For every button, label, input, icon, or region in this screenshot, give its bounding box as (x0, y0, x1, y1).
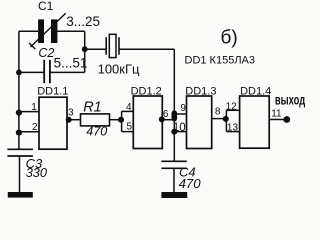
svg-text:DD1.4: DD1.4 (240, 86, 271, 98)
wire DD1.2 input bus (121, 111, 123, 131)
wire pin 11 output stub (270, 119, 287, 121)
svg-text:100кГц: 100кГц (98, 61, 140, 76)
wire pin 3 stub to R1 (67, 119, 81, 121)
wire pin 4 stub (122, 110, 134, 112)
svg-text:8: 8 (215, 107, 221, 118)
node junction pin6 (159, 116, 165, 122)
node junction feedback pin10 (171, 129, 177, 135)
wire pin 12 stub (226, 109, 239, 111)
capacitor C3 plates (7, 149, 33, 156)
svg-text:R1: R1 (83, 99, 102, 115)
svg-text:2: 2 (32, 122, 38, 133)
svg-text:13: 13 (227, 123, 239, 134)
capacitor C1 plates (38, 19, 57, 43)
svg-text:DD1 К155ЛА3: DD1 К155ЛА3 (185, 54, 256, 66)
svg-text:DD1.3: DD1.3 (185, 86, 216, 98)
wire pin 6 stub (162, 119, 174, 121)
svg-text:10: 10 (173, 122, 186, 134)
node junction pin2 (16, 130, 22, 136)
wire C2 right horizontal (50, 71, 85, 73)
wire C2 left horizontal (19, 71, 44, 73)
svg-text:б): б) (221, 28, 238, 49)
svg-text:470: 470 (179, 176, 202, 191)
capacitor C1 trimmer diagonal (29, 13, 66, 49)
logic gate DD1.3 (187, 96, 212, 149)
logic gate DD1.4 (240, 96, 270, 148)
svg-text:3: 3 (68, 108, 74, 119)
node junction C2 left line (16, 70, 22, 76)
wire pin 8 stub to DD1.4 bus (212, 118, 227, 120)
svg-text:C2: C2 (38, 46, 54, 60)
ground C3 (8, 192, 33, 198)
svg-text:C1: C1 (38, 0, 54, 13)
capacitor C2 plates (44, 60, 50, 83)
svg-text:DD1.2: DD1.2 (131, 86, 162, 98)
svg-text:выход: выход (275, 93, 305, 108)
wire pin 9 stub (174, 113, 186, 115)
wire right vertical node (C1 to C2 right) (84, 31, 86, 72)
svg-text:12: 12 (226, 101, 238, 112)
node junction R1 bus (118, 117, 124, 123)
ground C4 (161, 192, 187, 198)
wire feedback vertical (crystal to DD1.2 out / C4) (173, 49, 175, 161)
svg-text:470: 470 (86, 125, 107, 139)
svg-text:5...51: 5...51 (54, 55, 88, 70)
wire pin 2 stub (19, 131, 39, 133)
wire pin 13 stub (226, 131, 239, 133)
svg-text:9: 9 (180, 103, 186, 114)
resistor R1 (81, 114, 110, 126)
svg-text:4: 4 (126, 102, 132, 113)
svg-text:3...25: 3...25 (66, 14, 100, 29)
logic gate DD1.2 (133, 96, 162, 149)
wire left vertical node (C1/C2 left to DD1.1 inputs and C3) (18, 31, 20, 149)
svg-text:1: 1 (31, 102, 37, 113)
svg-text:330: 330 (26, 165, 48, 180)
svg-text:6: 6 (163, 109, 169, 120)
wire C1 right horizontal (57, 30, 84, 32)
wire crystal left (85, 48, 107, 50)
wire C3 to ground (19, 156, 21, 192)
node junction crystal tap (82, 46, 88, 52)
node output terminal (283, 116, 290, 123)
wire R1 to DD1.2 input bus (110, 119, 122, 121)
svg-text:DD1.1: DD1.1 (37, 86, 68, 98)
crystal ZQ1 100kHz (106, 34, 119, 57)
wire pin 10 stub (174, 131, 186, 133)
node junction feedback pin9+pin6 blob (172, 113, 178, 118)
wire C1 left horizontal (19, 30, 38, 32)
wire pin 5 stub (122, 131, 134, 133)
node junction pin3 (66, 117, 72, 123)
node junction pin1 (16, 110, 22, 116)
wire C4 to ground (173, 168, 175, 192)
wire pin 1 stub (19, 111, 39, 113)
svg-text:11: 11 (271, 108, 282, 119)
capacitor C4 plates (161, 161, 186, 168)
node junction DD1.4 bus (223, 116, 229, 122)
logic gate DD1.1 (39, 97, 67, 149)
svg-text:5: 5 (126, 122, 132, 133)
wire DD1.4 input bus (225, 110, 227, 131)
wire crystal right to feedback corner (119, 48, 174, 50)
